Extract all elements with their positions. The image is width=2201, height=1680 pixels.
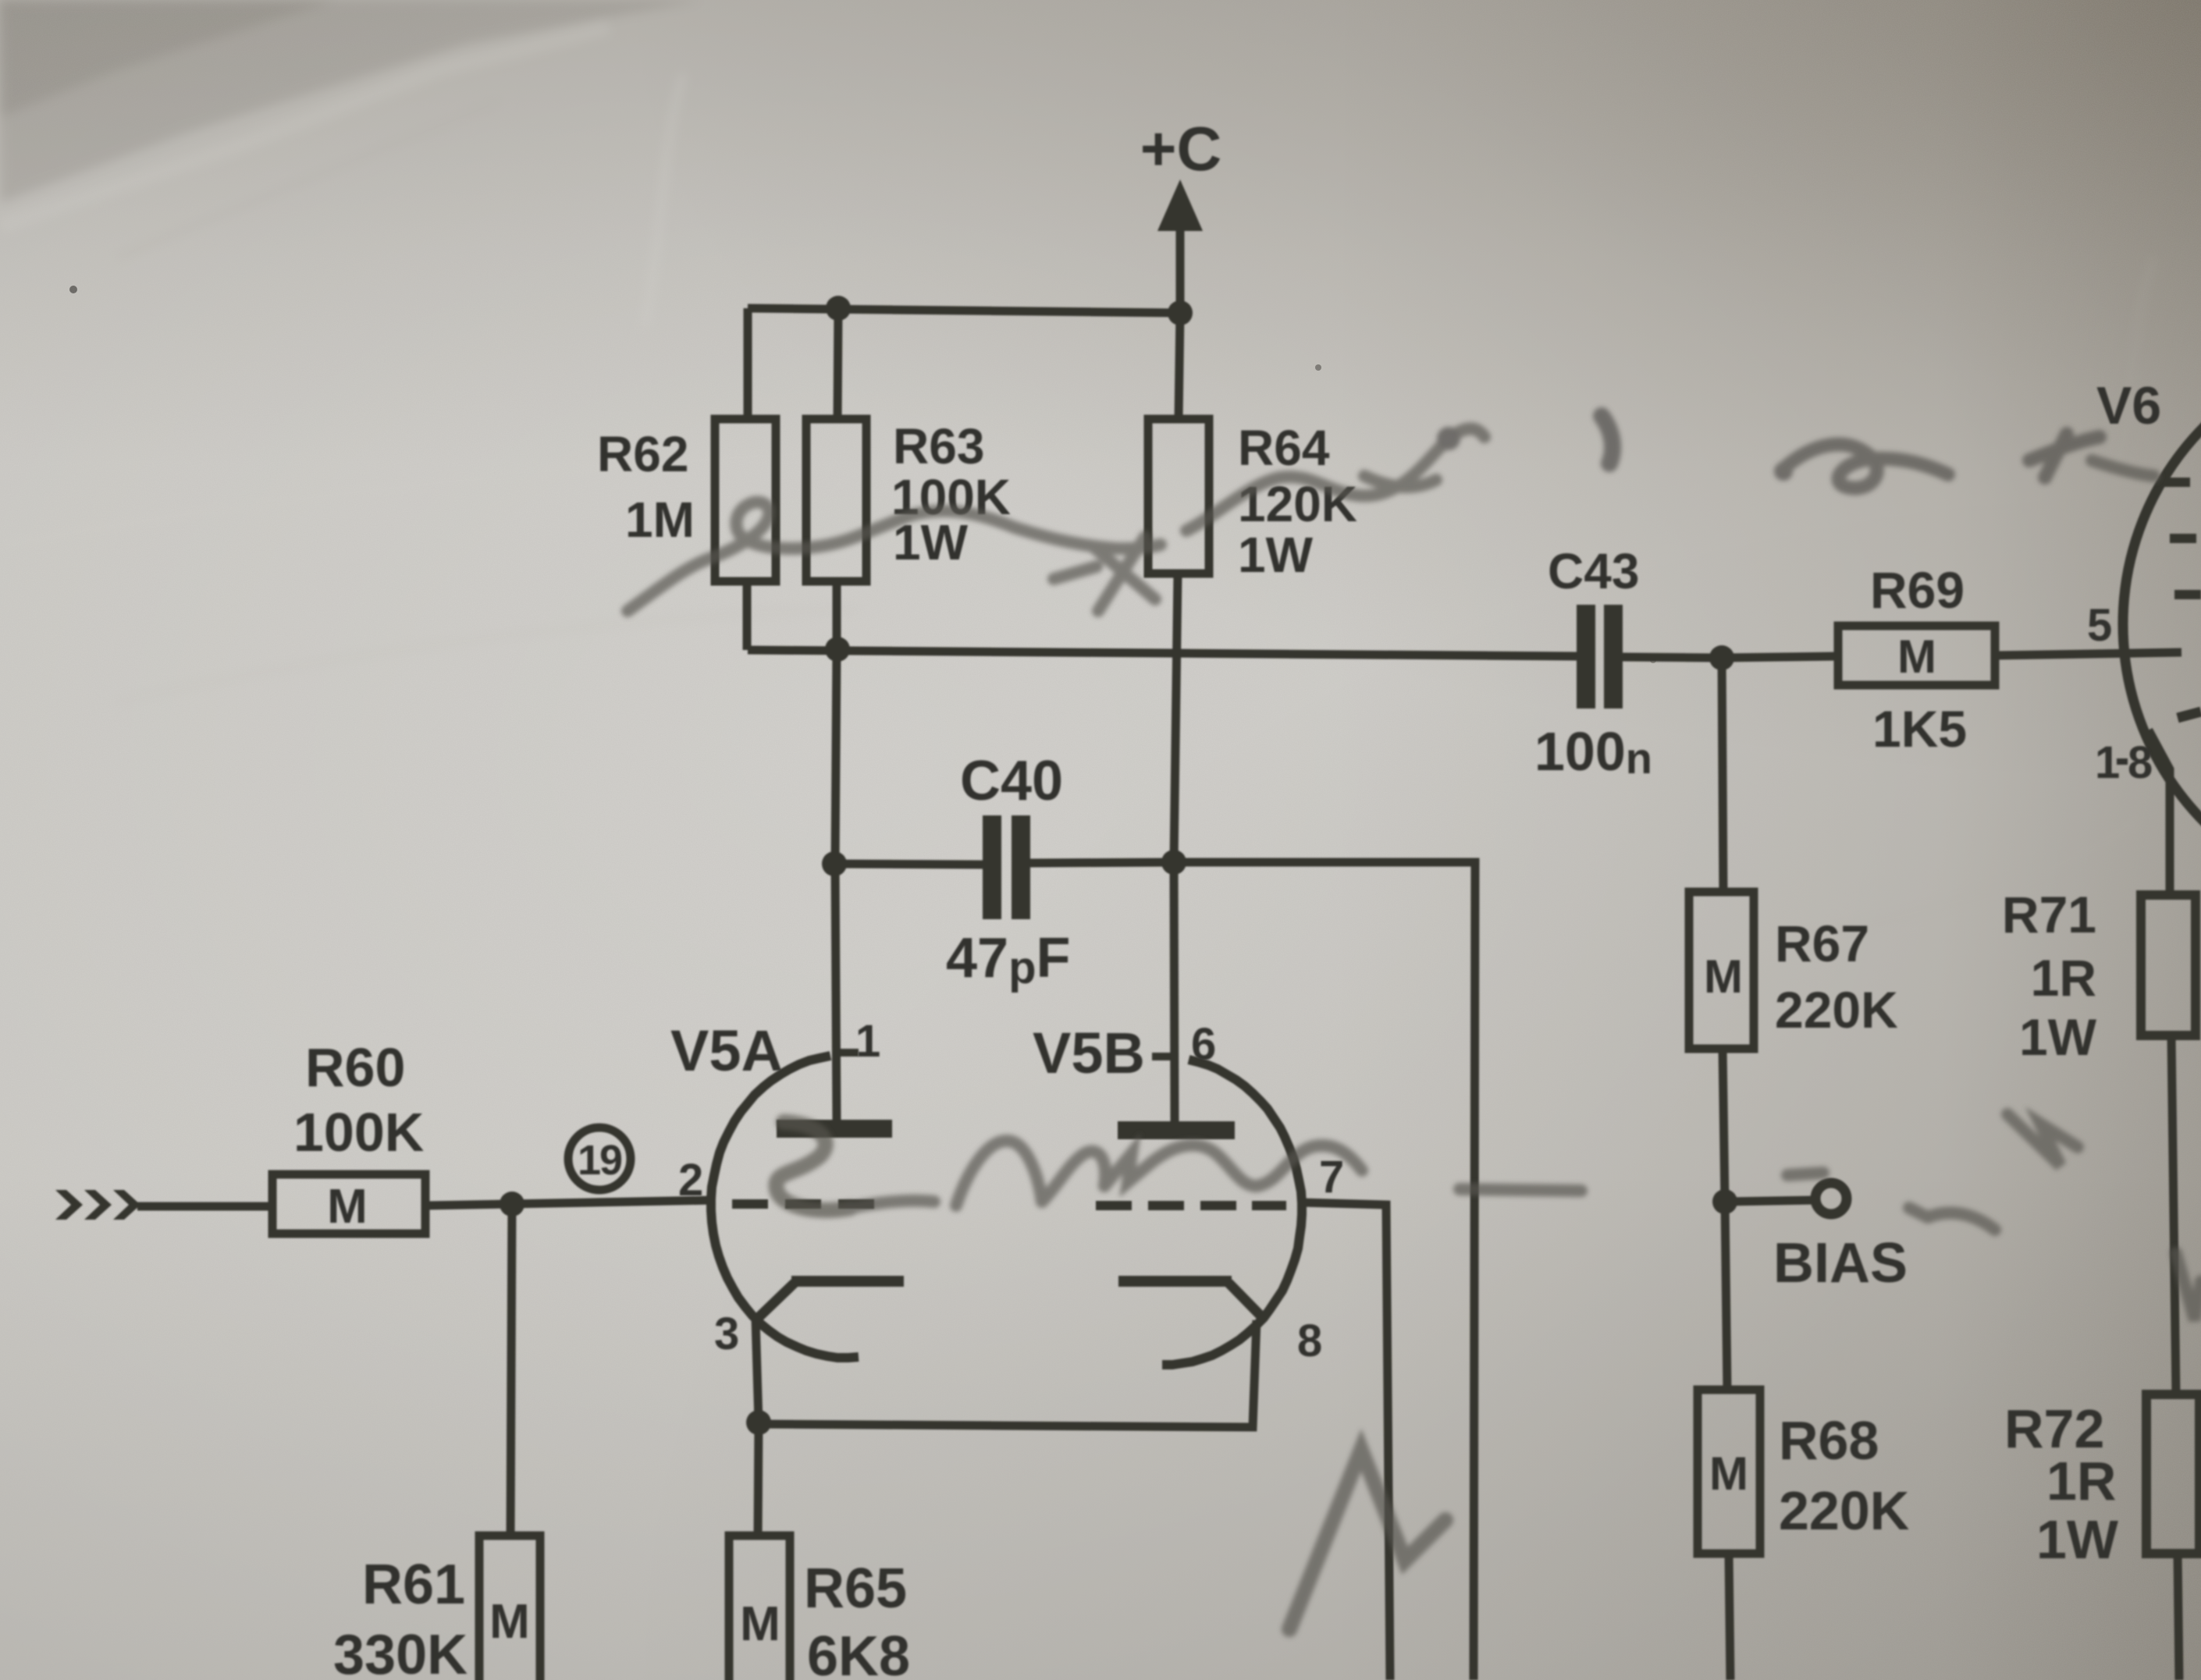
- wire: R71 to R72: [2171, 1035, 2176, 1394]
- wire: R63 top drop: [837, 308, 838, 419]
- wire: R64 bottom drop crossing signal bus down to V5B anode node: [1174, 574, 1178, 862]
- wire: R67 drop from signal node: [1722, 658, 1723, 892]
- svg-text:M: M: [1897, 630, 1936, 683]
- pin 6 tick: [1152, 1053, 1175, 1060]
- V5A anode plate: [777, 1120, 892, 1138]
- wire: signal bus right of C43: [1623, 657, 1722, 658]
- wire: V6 cathode drop to R71: [2166, 769, 2174, 895]
- wire: R62 top drop: [744, 308, 752, 419]
- svg-text:M: M: [740, 1597, 780, 1651]
- svg-text:C40: C40: [960, 750, 1063, 812]
- node: junction dot R63/signal bus: [825, 637, 850, 662]
- svg-text:1W: 1W: [1238, 527, 1314, 583]
- svg-text:1: 1: [2095, 737, 2120, 788]
- node: junction dot BIAS: [1712, 1189, 1737, 1214]
- svg-text:47pF: 47pF: [946, 927, 1071, 993]
- svg-text:220K: 220K: [1775, 981, 1898, 1039]
- wire: C40 right to V5B anode node: [1030, 862, 1174, 863]
- node: junction dot cathode bus: [746, 1410, 771, 1435]
- V5A grid dashes: [732, 1199, 874, 1209]
- svg-text:1: 1: [855, 1016, 880, 1067]
- svg-text:R71: R71: [2002, 886, 2096, 943]
- pencil zigzag right edge below R71: [2007, 1114, 2078, 1166]
- pencil mark right edge near R72: [2176, 1253, 2201, 1320]
- terminal BIAS: [1815, 1183, 1847, 1214]
- capacitor C43 plates: [1577, 605, 1595, 709]
- svg-text:R63: R63: [893, 418, 984, 474]
- svg-text:1M: 1M: [625, 492, 695, 548]
- wire: R63 bottom drop to V5A anode node: [835, 581, 837, 864]
- resistor R68: [1698, 1390, 1760, 1554]
- svg-text:R65: R65: [804, 1557, 907, 1620]
- svg-text:V5A: V5A: [670, 1018, 783, 1083]
- resistor R62: [715, 419, 776, 581]
- node 19 circle: [568, 1128, 631, 1190]
- node: junction dot C43/R69/R67: [1709, 645, 1734, 670]
- wire: R67 to BIAS node: [1723, 1049, 1725, 1202]
- svg-text:M: M: [327, 1180, 368, 1234]
- wire: V5B anode node right and down (to lower stage): [1174, 862, 1475, 1680]
- wire: top bus from R62 to +C junction: [748, 308, 1180, 313]
- V6 grid dashes: [2164, 478, 2190, 487]
- svg-text:1R: 1R: [2031, 949, 2096, 1007]
- wire: pin 7 lead from V5B grid: [1301, 1202, 1390, 1680]
- wire: input to R60: [137, 1202, 272, 1211]
- resistor R72: [2146, 1394, 2199, 1554]
- node: junction dot top bus at R63: [826, 296, 851, 321]
- pencil loops right of C43: [1784, 445, 1948, 488]
- wire: pin 3 to R65: [758, 1422, 759, 1536]
- tube V5A envelope arc: [711, 1056, 859, 1358]
- wire: R61 drop: [510, 1204, 512, 1536]
- resistor R64: [1148, 419, 1209, 574]
- input arrows: [55, 1190, 140, 1220]
- svg-text:+C: +C: [1140, 114, 1222, 183]
- wire: pin 6 lead down to V5B plate: [1174, 862, 1175, 1121]
- svg-text:6: 6: [1191, 1019, 1216, 1070]
- pencil zigzag bottom: [1289, 1450, 1445, 1629]
- wire: R69 to V6 pin 5: [1995, 652, 2181, 655]
- V5B anode plate: [1118, 1121, 1235, 1139]
- svg-text:1R: 1R: [2046, 1451, 2116, 1511]
- resistor R60: [272, 1174, 425, 1234]
- crease right of R62 area: [644, 74, 683, 328]
- V6 cathode: [2148, 730, 2170, 771]
- resistor R69: [1838, 626, 1995, 685]
- svg-text:R62: R62: [597, 426, 688, 482]
- resistor R71: [2141, 895, 2196, 1035]
- svg-text:1K5: 1K5: [1872, 700, 1967, 758]
- wire: cathode bus to pin 8: [759, 1320, 1257, 1427]
- svg-text:7: 7: [1319, 1152, 1344, 1202]
- svg-text:2: 2: [678, 1155, 703, 1206]
- svg-text:8: 8: [1297, 1316, 1322, 1366]
- svg-text:BIAS: BIAS: [1773, 1232, 1908, 1295]
- pencil marks near BIAS: [1787, 1173, 1823, 1175]
- tube V6 envelope: [2123, 343, 2201, 905]
- pencil S-curve over V5A: [776, 1122, 851, 1210]
- wire: C40 link left: [835, 864, 983, 865]
- svg-text:R61: R61: [362, 1554, 465, 1616]
- dust speck: [69, 286, 77, 293]
- power +C arrow: [1176, 225, 1185, 313]
- wire: R60 to V5A grid pin 2: [425, 1200, 715, 1206]
- svg-text:R64: R64: [1238, 420, 1330, 476]
- wire: below R72: [2178, 1554, 2179, 1680]
- wire: to R69: [1722, 656, 1838, 658]
- wire: below R68: [1729, 1554, 1730, 1680]
- capacitor C40 plates: [983, 815, 1001, 919]
- svg-text:M: M: [489, 1595, 530, 1649]
- svg-text:8: 8: [2128, 737, 2153, 788]
- svg-text:19: 19: [578, 1137, 622, 1184]
- wire: BIAS node down to R68: [1725, 1202, 1727, 1390]
- wire: R62 bottom drop: [743, 581, 752, 650]
- svg-text:6K8: 6K8: [807, 1625, 910, 1680]
- node: junction dot C40 left / V5A anode: [822, 851, 847, 876]
- wire: signal bus left of C43: [748, 650, 1577, 656]
- node: junction dot at +C: [1168, 300, 1193, 325]
- top-left shaded fold of paper: [0, 0, 702, 203]
- resistor R67: [1689, 892, 1754, 1049]
- svg-text:1W: 1W: [2036, 1509, 2118, 1570]
- wire: BIAS stub: [1725, 1200, 1815, 1202]
- svg-text:5: 5: [2087, 600, 2112, 651]
- svg-text:R60: R60: [305, 1037, 405, 1098]
- wire: pin 3 lead down: [756, 1319, 759, 1422]
- svg-text:V6: V6: [2096, 376, 2161, 435]
- svg-text:M: M: [1704, 950, 1743, 1003]
- tube V5B envelope arc: [1162, 1060, 1302, 1365]
- svg-text:R67: R67: [1775, 915, 1869, 972]
- wire: R64 top drop: [1179, 313, 1180, 419]
- svg-text:330K: 330K: [333, 1624, 468, 1680]
- resistor R61: [479, 1536, 540, 1680]
- V5A cathode: [791, 1276, 904, 1287]
- svg-text:3: 3: [714, 1309, 739, 1359]
- node: junction dot input/R61: [500, 1192, 524, 1216]
- crease highlight top-left: [0, 27, 609, 226]
- svg-text:M: M: [1709, 1447, 1748, 1500]
- V5B cathode: [1118, 1276, 1232, 1287]
- svg-text:1W: 1W: [2019, 1008, 2097, 1066]
- svg-text:C43: C43: [1548, 543, 1639, 599]
- node: junction dot C40 right / V5B anode: [1161, 850, 1186, 875]
- pin 1 tick: [837, 1049, 859, 1057]
- pencil squiggle top long: [628, 503, 1015, 611]
- resistor R63: [806, 419, 866, 581]
- svg-text:220K: 220K: [1779, 1480, 1909, 1541]
- svg-text:100K: 100K: [293, 1102, 424, 1163]
- V5B grid dashes: [1096, 1201, 1286, 1210]
- resistor R65: [729, 1536, 790, 1680]
- svg-text:R69: R69: [1870, 561, 1965, 619]
- svg-text:R68: R68: [1779, 1410, 1879, 1471]
- wire: pin 1 lead down to V5A plate: [835, 864, 837, 1121]
- svg-text:V5B: V5B: [1033, 1021, 1145, 1085]
